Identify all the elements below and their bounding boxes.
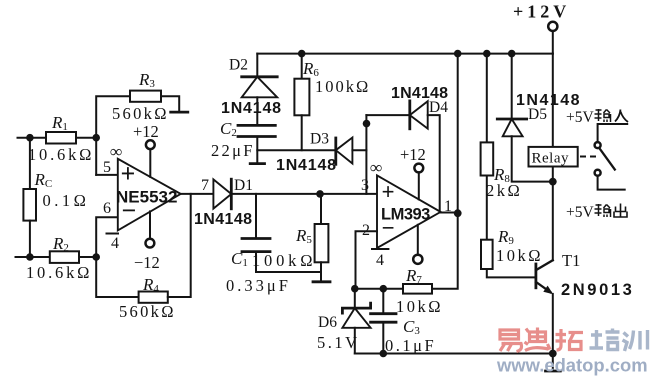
- wire C1 bottom to R5 column: [256, 252, 321, 272]
- wire R4 right up to output: [168, 194, 191, 297]
- svg-text:10.6kΩ: 10.6kΩ: [28, 145, 94, 164]
- capacitor C3: [371, 312, 396, 315]
- switch contact upper: [595, 142, 601, 148]
- diode D2: [242, 75, 278, 78]
- svg-text:1N4148: 1N4148: [276, 157, 337, 174]
- node junction at pin6 column: [92, 253, 100, 261]
- glyph chu (output): [614, 204, 627, 218]
- wire +5V input lead: [598, 124, 628, 142]
- svg-text:www.edatop.com: www.edatop.com: [496, 355, 648, 376]
- wire column D3/D4 to pin3: [365, 115, 367, 194]
- svg-text:0.1μF: 0.1μF: [385, 336, 436, 355]
- svg-text:5.1V: 5.1V: [317, 333, 360, 352]
- svg-text:D2: D2: [229, 57, 248, 74]
- svg-text:Relay: Relay: [532, 151, 570, 167]
- resistor R2: [50, 251, 79, 263]
- node junction bus at output column: [454, 50, 462, 58]
- node junction relay bottom: [549, 178, 557, 186]
- glyph shu (input): [595, 109, 611, 122]
- wire input lower left stub: [16, 256, 50, 258]
- wire LM393 output: [441, 212, 458, 214]
- resistor R4: [139, 292, 168, 303]
- wire pin6 input and down to R4 row: [96, 217, 138, 297]
- svg-text:10.6kΩ: 10.6kΩ: [26, 263, 92, 282]
- T1 emitter lead with arrow: [536, 282, 551, 292]
- resistor R1: [46, 132, 76, 144]
- wire R1 to node: [76, 137, 96, 139]
- op-amp U2 LM393 triangle: [377, 175, 441, 248]
- node junction at pin5 column: [92, 134, 100, 142]
- svg-text:4: 4: [376, 252, 384, 269]
- svg-text:2kΩ: 2kΩ: [486, 181, 522, 200]
- resistor R8: [481, 142, 494, 175]
- svg-text:+12V: +12V: [513, 2, 570, 22]
- wire pin2 input: [356, 231, 378, 289]
- wire R5 to ground: [320, 262, 322, 281]
- wire C2 bottom to ground: [256, 137, 258, 164]
- svg-text:D6: D6: [318, 314, 337, 331]
- svg-text:100kΩ: 100kΩ: [252, 251, 316, 270]
- svg-text:∞: ∞: [110, 142, 122, 161]
- -12 terminal circle NE5532: [146, 239, 155, 248]
- svg-text:−: −: [122, 196, 137, 225]
- bottom rail wire: [355, 353, 553, 355]
- wire R3 right to ground: [161, 96, 179, 111]
- wire R8 to R9: [486, 176, 488, 240]
- resistor Rc: [23, 189, 36, 221]
- wire D6 to bottom rail: [354, 328, 356, 354]
- wire D3 anode to column: [352, 149, 366, 151]
- svg-text:560kΩ: 560kΩ: [119, 302, 176, 321]
- svg-text:−12: −12: [134, 253, 160, 272]
- capacitor C1: [242, 237, 270, 240]
- wire output pin7: [181, 193, 214, 195]
- node junction bus at R6: [298, 50, 306, 58]
- pin4 terminal circle LM393: [413, 255, 422, 264]
- svg-text:∞: ∞: [370, 158, 382, 177]
- capacitor C2: [238, 124, 275, 127]
- node junction bus at R8: [483, 50, 491, 58]
- ground bar at R3: [171, 111, 188, 114]
- wire D1 to LM393 pin3: [231, 193, 377, 195]
- pin 4 stub and label NE5532: [107, 233, 119, 235]
- wire relay bottom to collector: [552, 167, 554, 261]
- svg-text:1N4148: 1N4148: [516, 92, 581, 109]
- pin 4 stub and label LM393: [372, 248, 388, 250]
- svg-text:1N4148: 1N4148: [194, 211, 252, 228]
- resistor R9: [481, 240, 493, 269]
- wire D3 row from C2 column: [257, 149, 335, 151]
- svg-text:6: 6: [103, 200, 111, 217]
- zener diode D6: [342, 303, 370, 313]
- wire pin4 down LM393: [417, 225, 419, 255]
- wire -12 from op-amp: [149, 211, 151, 238]
- wire R7 left to node: [355, 288, 403, 290]
- node junction output: [454, 209, 462, 217]
- svg-text:100kΩ: 100kΩ: [315, 77, 370, 96]
- svg-text:+5V: +5V: [566, 109, 594, 126]
- diode D5: [497, 118, 526, 121]
- svg-text:−: −: [382, 216, 395, 241]
- svg-text:2N9013: 2N9013: [561, 281, 634, 299]
- relay K1 box: [529, 147, 578, 167]
- +12V terminal: [552, 31, 554, 53]
- wire +5V output lead: [598, 176, 625, 190]
- switch arm: [600, 149, 615, 170]
- node junction bus at D5: [508, 50, 516, 58]
- diode D1: [213, 179, 231, 208]
- +12 terminal circle LM393: [414, 164, 423, 173]
- wire D2 to C2: [256, 97, 258, 125]
- wire pin5 input: [96, 174, 118, 176]
- node junction below corner: [363, 120, 371, 128]
- svg-text:0.33μF: 0.33μF: [226, 276, 291, 295]
- svg-text:0.1Ω: 0.1Ω: [43, 191, 90, 210]
- wire bus down to relay: [552, 54, 554, 147]
- resistor R6: [294, 79, 309, 116]
- svg-text:560kΩ: 560kΩ: [112, 104, 169, 123]
- top +12V bus wire: [257, 53, 553, 55]
- svg-text:4: 4: [111, 235, 119, 252]
- wire D5 anode to relay bottom: [512, 136, 553, 181]
- node junction left lower: [26, 253, 34, 261]
- wire R6 bottom to D3 row: [301, 115, 303, 150]
- svg-text:T1: T1: [562, 251, 580, 270]
- ground symbol bottom: [552, 354, 554, 371]
- svg-text:+: +: [121, 159, 136, 188]
- T1 collector lead: [536, 260, 553, 270]
- svg-text:+: +: [382, 180, 395, 205]
- node junction C3 bottom: [380, 350, 388, 358]
- wire feedback column up to R3: [96, 96, 130, 175]
- wire emitter down: [552, 294, 554, 354]
- diode D3: [334, 138, 337, 164]
- svg-text:22μF: 22μF: [211, 141, 255, 160]
- ground bar at C2: [250, 162, 264, 165]
- node junction C3: [380, 285, 388, 293]
- svg-text:10kΩ: 10kΩ: [496, 246, 543, 265]
- glyph shu (output): [595, 204, 611, 217]
- wire D4 anode down to output: [428, 115, 440, 212]
- svg-text:1N4148: 1N4148: [221, 100, 282, 117]
- dashed link relay to switch: [580, 156, 596, 158]
- wire bus down to R6: [301, 54, 303, 79]
- wire node down to R5: [320, 194, 322, 224]
- svg-text:7: 7: [201, 177, 209, 194]
- svg-text:1N4148: 1N4148: [391, 85, 448, 102]
- ground bar at R5: [313, 280, 330, 283]
- wire R9 to base: [487, 269, 536, 277]
- switch contact lower: [595, 170, 601, 176]
- node junction D6: [351, 285, 359, 293]
- wire +12 into LM393: [418, 172, 420, 199]
- +12 terminal circle NE5532: [146, 140, 155, 149]
- svg-text:3: 3: [361, 177, 369, 194]
- svg-text:+12: +12: [400, 145, 426, 164]
- wire bus down to D2: [256, 54, 258, 77]
- wire Rc to lower node: [29, 221, 31, 257]
- wire input upper left stub: [18, 137, 47, 139]
- resistor R3: [130, 91, 161, 102]
- wire left vertical to Rc: [29, 138, 31, 189]
- wire R2 to node: [79, 256, 96, 258]
- wire node down to D6: [354, 289, 356, 308]
- wire +12 into op-amp: [149, 149, 151, 177]
- svg-text:5: 5: [103, 159, 111, 176]
- node junction at R5/C1: [316, 190, 324, 198]
- resistor R5: [315, 224, 329, 262]
- wire bus down to D5: [511, 54, 513, 119]
- wire C3 to bottom rail: [382, 322, 384, 353]
- op-amp U1 NE5532 triangle: [118, 159, 181, 231]
- resistor R7: [403, 284, 432, 294]
- node junction emitter bottom: [549, 350, 557, 358]
- svg-text:D1: D1: [234, 177, 253, 194]
- svg-text:+12: +12: [133, 122, 159, 141]
- wire node down to C3: [382, 289, 384, 314]
- diode D4: [408, 101, 411, 129]
- glyph ru (input): [615, 110, 628, 123]
- wire down to C1: [255, 194, 257, 239]
- svg-text:+5V: +5V: [566, 204, 594, 221]
- wire bus down to R8: [486, 54, 488, 143]
- wire output column bus to R7: [432, 54, 458, 289]
- svg-text:10kΩ: 10kΩ: [396, 297, 443, 316]
- wire corner to D4: [366, 114, 409, 116]
- svg-text:D3: D3: [310, 131, 329, 148]
- node junction left upper: [26, 134, 34, 142]
- watermark yi di tuo pei xun: [500, 328, 583, 352]
- transistor Q1 T1 2N9013: [535, 263, 538, 290]
